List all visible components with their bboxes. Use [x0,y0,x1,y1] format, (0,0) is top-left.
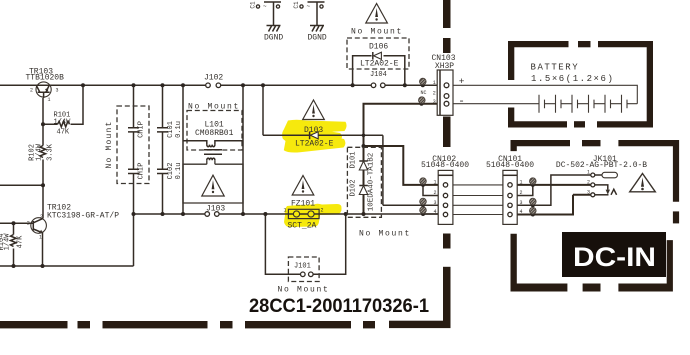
svg-text:28CC1-2001170326-1: 28CC1-2001170326-1 [249,296,429,317]
wire vertical x=243 (L101 box right) [242,85,244,214]
wire mid bus y=214 [134,213,439,215]
svg-text:3.3K: 3.3K [47,143,55,161]
wire top bus y=85.3 [0,84,437,86]
svg-text:NC: NC [421,90,427,96]
no-mount dashed box D106 [347,28,409,70]
svg-text:C1: C1 [250,1,257,9]
wire TR102 base row y=223.3 [0,222,31,224]
wire D103 row y=135.3 [263,134,383,136]
wire TR102 emitter x=42.5 [42,233,44,267]
svg-text:2: 2 [40,214,43,220]
svg-text:1: 1 [433,80,436,86]
DC-IN black badge [562,232,666,277]
label TR103 [26,68,65,83]
connector CN103 [421,54,465,115]
resistor R102 [40,146,46,158]
wire junction row y=146 to CN102 pins 1-2 [364,146,439,185]
svg-text:47K: 47K [17,235,25,248]
svg-text:51048-0400: 51048-0400 [421,161,469,170]
wire bottom-left bus y=266 [0,265,134,267]
jumper J103 [205,205,226,217]
svg-text:J101: J101 [294,263,311,271]
shield mark CN101 pin3 [530,198,537,205]
jack JK101 [556,155,647,197]
svg-text:3: 3 [434,200,437,206]
svg-text:C102: C102 [167,163,175,180]
diode D102 [350,180,368,197]
jumper J102 [204,74,223,88]
svg-text:KTC3198-GR-AT/P: KTC3198-GR-AT/P [47,212,119,221]
svg-text:No Mount: No Mount [105,120,114,168]
svg-text:1: 1 [39,235,42,241]
svg-text:C101: C101 [167,121,175,138]
connector CN102 [421,155,469,225]
svg-text:BATTERY: BATTERY [531,63,580,73]
svg-text:SCT_2A: SCT_2A [288,222,317,231]
svg-text:1.5×6(1.2×6): 1.5×6(1.2×6) [531,74,614,84]
svg-text:2: 2 [30,87,33,93]
svg-text:DC-IN: DC-IN [573,242,656,272]
wire CN101 to jack pin2 [517,184,591,186]
svg-text:D106: D106 [369,43,388,52]
label 10EDA40-TA1B2 (rotated) [367,153,375,212]
capacitor C102 [157,163,183,180]
wire CN102 pin3 row y=205.3 [383,204,438,206]
wire CN101 pin2 tie x=532.8 [517,185,533,196]
wire battery minus y=103.7 [453,103,539,105]
svg-text:DGND: DGND [308,34,327,43]
svg-text:2: 2 [433,91,436,97]
svg-text:1/4W: 1/4W [54,119,72,127]
svg-text:LT2A02-E: LT2A02-E [360,60,399,69]
wire left column x=43 [42,98,44,218]
wire vertical x=183 (L101 box left) [182,85,184,214]
svg-text:1: 1 [587,170,590,176]
svg-text:0.1u: 0.1u [175,163,183,180]
svg-text:LT2A02-E: LT2A02-E [295,140,334,149]
svg-text:2: 2 [587,180,590,186]
svg-text:CM08RB01: CM08RB01 [195,129,234,138]
wire CN102 left stubs [423,205,438,214]
svg-text:J102: J102 [204,74,223,83]
svg-text:J104: J104 [370,71,387,79]
svg-text:2: 2 [434,190,437,196]
svg-text:D102: D102 [350,180,358,197]
shield mark CN101 pin4 [530,207,537,214]
resistor R101 [58,121,70,127]
svg-text:3: 3 [56,87,59,93]
wire CN101 pin4 to jack pin3 [517,195,591,215]
label R102 values (rotated) [29,143,55,161]
svg-text:~: ~ [307,3,311,10]
diode D106 [360,43,399,69]
svg-text:C1: C1 [293,1,300,9]
capacitor C101 [157,121,183,138]
wire D106 bypass loop [353,56,405,86]
connector CN101 [486,155,534,225]
shield mark CN102 pin3 [420,198,427,205]
jumper J101 no-mount box [278,257,330,295]
svg-text:No Mount: No Mount [188,103,240,112]
wire vertical x=133.5 (chip caps branch) [133,85,135,266]
inductor L101 dashed box [187,103,242,151]
svg-text:2: 2 [520,190,523,196]
svg-text:1/4W: 1/4W [4,233,12,251]
pcb boundary bottom dashed [0,321,375,328]
svg-text:47K: 47K [57,129,70,137]
svg-text:10EDA40-TA1B2: 10EDA40-TA1B2 [367,153,375,212]
svg-text:4: 4 [520,209,523,215]
ground DGND right [293,1,327,42]
warning triangle above FZ101 [292,176,314,196]
diode D101 [350,152,368,170]
capacitor CHIP lower [128,163,146,180]
svg-text:CHIP: CHIP [138,121,146,138]
transformer L101 windings [183,141,243,161]
wire battery plus y=85.3 [453,85,637,103]
svg-text:D101: D101 [350,152,358,169]
transistor TR103 [30,82,59,103]
svg-text:CHIP: CHIP [138,163,146,180]
wire R101 loop [43,85,83,124]
svg-text:3: 3 [520,200,523,206]
captions [249,232,666,317]
jumper J104 [370,71,387,88]
label BATTERY frame is above; dc-in box dashed frame [511,140,680,292]
svg-text:1: 1 [520,180,523,186]
svg-text:~: ~ [263,3,267,10]
svg-text:TTB1020B: TTB1020B [26,74,65,83]
warning triangle above D106 [366,4,388,24]
label R101 values [54,112,72,137]
svg-text:No Mount: No Mount [278,286,330,295]
svg-text:1: 1 [284,208,287,214]
wire CN102 pin2 tie x=423 [423,185,438,196]
label R104 values (rotated) [0,233,25,251]
svg-text:DC-502-AG-PBT-2.0-B: DC-502-AG-PBT-2.0-B [556,161,647,170]
shield mark CN102 pin1 [420,178,427,185]
shield mark CN103 pin1 [420,78,427,85]
highlight over D103 [282,120,346,153]
diode D103 [295,126,334,149]
highlight over FZ101 [284,204,342,227]
shield mark CN102 pin4 [420,207,427,214]
wire CN103 pin3 feed y=103.7 [364,104,438,214]
shield mark CN103 pin3 [419,97,426,104]
shield mark CN101 pin1 [530,178,537,185]
node box J103 with warning [183,160,243,203]
svg-text:-: - [458,96,465,108]
resistor R104 [11,235,17,247]
svg-text:3: 3 [587,190,590,196]
wire vertical x=382.9 to CN102 pin3 [382,135,384,205]
label TR102 [47,204,119,221]
svg-text:1: 1 [434,180,437,186]
wire R104 branch x=13.5 [13,223,15,266]
battery box dashed frame [508,41,653,128]
svg-text:FZ101: FZ101 [291,200,315,209]
no-mount dashed box D101/D102 [347,147,411,238]
ground DGND left [250,1,284,42]
pcb boundary vertical dashed [389,0,451,328]
label BATTERY block is in comps; board number caption [249,296,429,317]
svg-text:0.1u: 0.1u [175,121,183,138]
wire CN102-CN101 harness [453,185,503,215]
battery cells [531,63,638,113]
fuse FZ101 [284,200,324,231]
svg-text:2: 2 [321,208,324,214]
svg-text:3: 3 [433,99,436,105]
capacitor CHIP upper [128,121,146,138]
warning triangle above D103 [303,100,325,120]
no-mount dashed box chip caps [105,106,149,184]
svg-text:+: + [459,76,465,87]
svg-text:1/4W: 1/4W [36,143,44,161]
wire D103 branch vertical x=263 [262,85,264,135]
svg-text:No Mount: No Mount [359,230,411,239]
svg-text:51048-0400: 51048-0400 [486,161,534,170]
svg-text:1: 1 [48,97,51,103]
svg-text:4: 4 [434,209,437,215]
wire CN101 pin3 to jack tip [517,175,591,205]
warning triangle DC-IN [630,174,656,192]
svg-text:DGND: DGND [264,34,283,43]
transistor TR102 [27,214,47,241]
warning triangle in J103 box [202,175,224,196]
wire row y=185.3 left [0,184,43,186]
svg-text:2: 2 [27,221,30,227]
wire vertical x=162.5 (C101/C102 branch) [162,85,164,214]
svg-text:No Mount: No Mount [351,28,403,37]
wire J101 bypass loop [265,214,345,274]
